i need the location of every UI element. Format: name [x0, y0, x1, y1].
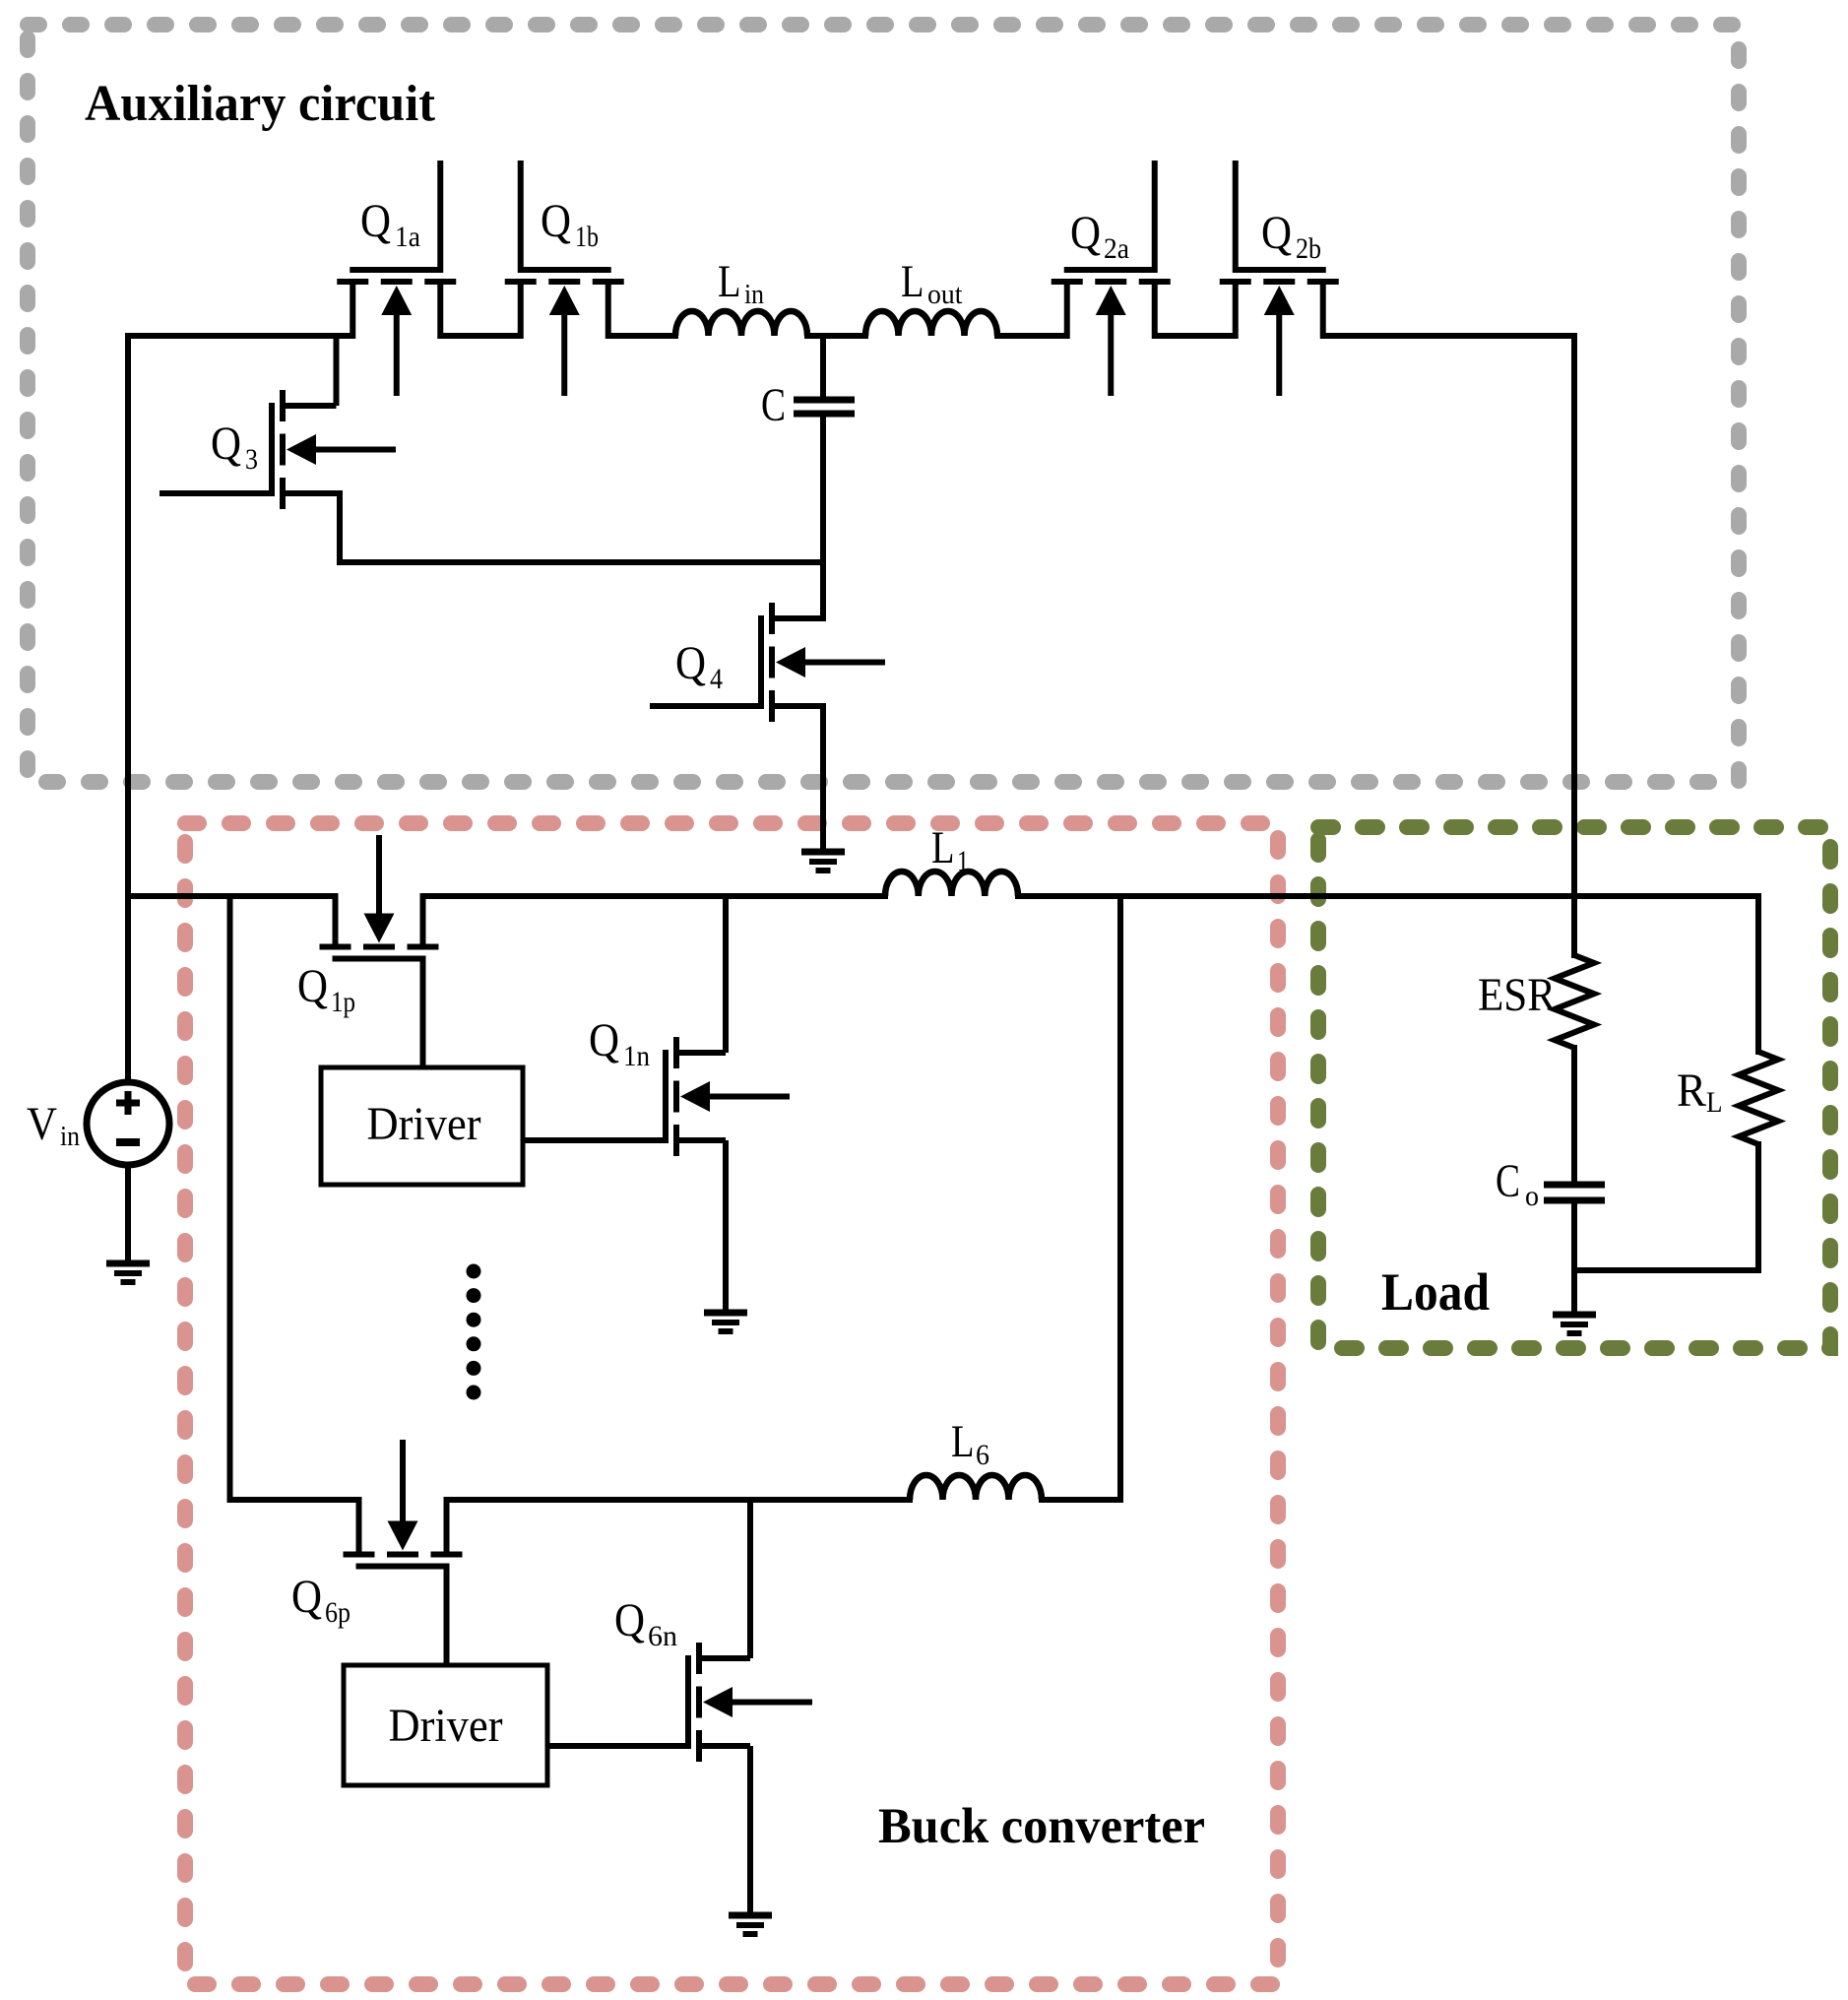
inductor Lout: [865, 311, 997, 336]
ground under Vin: [106, 1263, 150, 1282]
svg-text:2a: 2a: [1104, 232, 1129, 265]
wire Q6n drain riser: [747, 1500, 753, 1658]
svg-text:V: V: [27, 1098, 57, 1150]
svg-text:1b: 1b: [575, 221, 599, 253]
wire RL to bottom node: [1755, 1141, 1761, 1273]
label Q1a: [360, 195, 420, 253]
svg-text:C: C: [761, 379, 786, 431]
driver U1: [321, 1067, 523, 1185]
svg-text:C: C: [1496, 1155, 1520, 1207]
svg-text:in: in: [60, 1122, 80, 1152]
svg-text:1n: 1n: [623, 1040, 650, 1072]
svg-text:Q: Q: [614, 1594, 645, 1646]
label Q6n: [614, 1594, 677, 1652]
svg-text:Q: Q: [1261, 207, 1292, 259]
svg-text:1p: 1p: [331, 986, 355, 1018]
title Buck converter: [878, 1799, 1205, 1854]
wire Vin to ground: [125, 1165, 131, 1263]
label Q4: [675, 637, 723, 695]
svg-text:Q: Q: [291, 1571, 322, 1623]
wire output riser to bus: [1117, 893, 1123, 1503]
wire Q2b source to output bus: [1323, 333, 1578, 339]
auxiliary circuit boundary (gray dashed box): [28, 25, 1739, 782]
label Lin: [718, 256, 764, 310]
resistor ESR: [1555, 955, 1594, 1048]
transistor Q6p: [344, 1440, 463, 1665]
svg-text:4: 4: [710, 663, 723, 695]
wire Q1n drain riser: [723, 896, 729, 1053]
wire Lin to Lout (node with C tap): [804, 333, 868, 339]
wire Q6n source to ground: [747, 1746, 753, 1915]
svg-text:1a: 1a: [395, 221, 420, 253]
wire L1 to load (output bus): [1015, 893, 1758, 899]
transistor Q2a: [1051, 161, 1171, 396]
label Driver (U1): [367, 1098, 481, 1150]
resistor RL: [1739, 1052, 1778, 1144]
svg-text:Driver: Driver: [389, 1700, 503, 1752]
label Vin: [27, 1098, 80, 1152]
wire node A riser to Q3 drain: [334, 336, 340, 406]
wire Q1a drain to Q1b drain: [440, 333, 521, 339]
wire Q6p drain to L6: [447, 1497, 914, 1503]
svg-text:L: L: [1706, 1086, 1723, 1119]
ground under Q4: [801, 852, 845, 871]
ground under Q6n: [729, 1915, 772, 1934]
svg-text:Auxiliary circuit: Auxiliary circuit: [85, 76, 436, 132]
transistor Q2b: [1220, 161, 1339, 396]
wire Co to bottom node: [1571, 1200, 1577, 1273]
svg-text:R: R: [1677, 1065, 1706, 1117]
buck converter boundary (pink dashed box): [185, 823, 1278, 1984]
wire Q2a drain to Q2b drain: [1155, 333, 1237, 339]
svg-text:6: 6: [976, 1439, 989, 1471]
label Lout: [901, 256, 963, 310]
title Load: [1381, 1262, 1490, 1322]
ground under Q1n: [704, 1313, 747, 1331]
svg-text:L: L: [931, 822, 955, 873]
label L6: [951, 1416, 989, 1471]
svg-text:Driver: Driver: [367, 1098, 481, 1150]
svg-text:L: L: [951, 1416, 975, 1467]
transistor Q1n: [523, 1037, 790, 1156]
svg-text:6n: 6n: [648, 1620, 677, 1652]
label Q2a: [1070, 207, 1129, 265]
label L1: [931, 822, 969, 877]
Vin minus sign: [116, 1138, 140, 1146]
label Q3: [211, 418, 258, 476]
svg-text:Q: Q: [589, 1014, 619, 1066]
transistor Q3: [159, 390, 396, 509]
ellipsis dots (phases 2..5): [467, 1264, 481, 1400]
wire bus down to Q6p source: [227, 893, 359, 1500]
wire C bottom lead to Q4 drain: [820, 417, 826, 621]
inductor Lin: [675, 311, 807, 336]
label Q1b: [541, 195, 599, 253]
svg-text:Q: Q: [541, 195, 571, 247]
wire bus corner down to RL: [1755, 893, 1761, 1055]
inductor L1: [885, 871, 1018, 896]
wire load bottom: [1571, 1267, 1761, 1273]
svg-text:o: o: [1525, 1180, 1539, 1212]
wire right output bus (vertical): [1571, 333, 1577, 900]
svg-text:Q: Q: [211, 418, 241, 470]
label RL: [1677, 1065, 1723, 1119]
wire Q1p drain to L1: [420, 893, 889, 899]
svg-text:Buck converter: Buck converter: [878, 1799, 1205, 1854]
inductor L6: [910, 1475, 1042, 1500]
svg-text:ESR: ESR: [1478, 969, 1556, 1021]
Vin plus sign: [116, 1091, 140, 1115]
svg-text:Q: Q: [360, 195, 391, 247]
driver U2: [344, 1665, 547, 1785]
wire driver U2 to Q6n gate: [547, 1743, 688, 1749]
svg-text:2b: 2b: [1296, 232, 1321, 265]
ground load: [1553, 1315, 1596, 1333]
load boundary (green dashed box): [1318, 827, 1830, 1348]
svg-text:Load: Load: [1381, 1262, 1490, 1322]
wire ESR to Co: [1571, 1045, 1577, 1185]
svg-text:6p: 6p: [325, 1596, 350, 1629]
wire output bus to ESR: [1571, 896, 1577, 958]
wire Q4 source to ground: [820, 703, 826, 852]
svg-text:in: in: [744, 280, 764, 310]
capacitor Co: [1544, 1185, 1605, 1200]
label Q6p: [291, 1571, 350, 1629]
wire Q1n source to ground: [723, 1140, 729, 1313]
wire Lout to Q2a source: [994, 333, 1067, 339]
transistor Q4: [650, 603, 885, 722]
transistor Q1a: [337, 161, 456, 396]
svg-text:L: L: [901, 256, 924, 307]
svg-text:out: out: [927, 280, 963, 310]
wire Q1b source to Lin: [608, 333, 679, 339]
transistor Q1b: [505, 161, 624, 396]
label Q1n: [589, 1014, 650, 1072]
wire Q3 source down-right to C bottom node: [337, 490, 823, 562]
label ESR: [1478, 969, 1556, 1021]
wire L6 to output riser: [1039, 1497, 1120, 1503]
wire input bus to Q1p: [125, 893, 339, 899]
label C: [761, 379, 786, 431]
wire driver U1 to Q1n gate: [523, 1137, 666, 1143]
wire C top lead: [820, 336, 826, 397]
transistor Q6n: [547, 1643, 812, 1762]
wire bottom node to ground: [1571, 1270, 1577, 1315]
svg-text:Q: Q: [1070, 207, 1101, 259]
svg-text:L: L: [718, 256, 741, 307]
svg-text:Q: Q: [297, 960, 328, 1012]
capacitor C: [794, 400, 855, 414]
title Auxiliary circuit: [85, 76, 436, 132]
wire left input bus (vertical): [125, 333, 131, 1085]
source Vin circle: [87, 1082, 169, 1165]
label Driver (U2): [389, 1700, 503, 1752]
label Q1p: [297, 960, 355, 1018]
label Q2b: [1261, 207, 1321, 265]
svg-text:Q: Q: [675, 637, 706, 689]
label Co: [1496, 1155, 1539, 1212]
svg-text:3: 3: [245, 443, 258, 476]
svg-text:1: 1: [957, 845, 969, 877]
wire Vin+ to Q1a source: [125, 333, 353, 339]
transistor Q1p: [320, 835, 439, 1067]
